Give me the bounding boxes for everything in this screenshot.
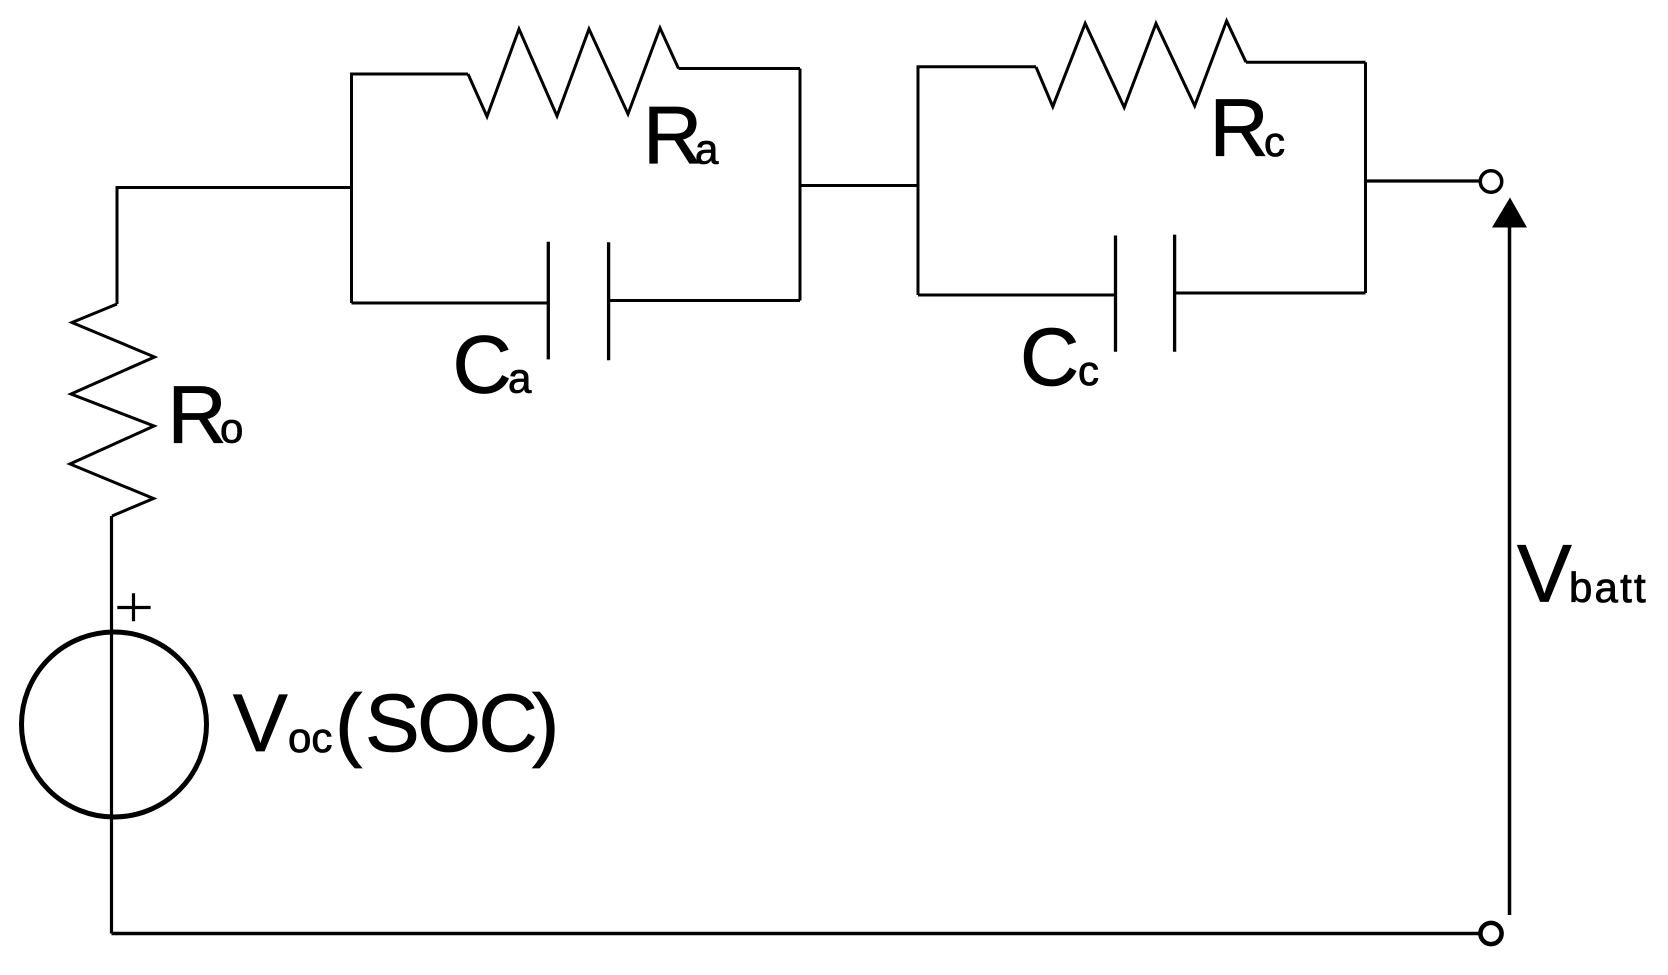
svg-text:C: C — [1020, 312, 1079, 403]
svg-text:o: o — [220, 405, 243, 452]
capacitor Cc right plate — [1173, 235, 1176, 352]
wire between Ra/Ca block and Rc/Cc block — [800, 184, 918, 187]
svg-text:a: a — [508, 355, 532, 402]
box Rc/Cc: bottom-right segment — [1175, 292, 1366, 295]
box Ra/Ca: top-left segment — [350, 73, 468, 76]
voltage source Voc circle — [22, 632, 207, 817]
svg-text:V: V — [1517, 529, 1572, 620]
capacitor Ca right plate — [607, 242, 610, 360]
svg-text:R: R — [1210, 83, 1269, 174]
Vbatt arrow head — [1492, 198, 1527, 228]
capacitor Ca left plate — [547, 242, 550, 360]
box Ra/Ca: bottom-right segment — [609, 299, 800, 302]
svg-text:SOC: SOC — [365, 678, 535, 769]
svg-text:batt: batt — [1569, 564, 1648, 611]
svg-text:V: V — [233, 678, 288, 769]
svg-text:R: R — [643, 91, 702, 182]
wire from Ro top to node A (left lead into Ra/Ca block) — [117, 188, 352, 305]
svg-text:C: C — [453, 320, 512, 411]
resistor Ra (zigzag on top edge) — [468, 28, 679, 117]
box Ra/Ca: bottom-left segment — [352, 302, 549, 305]
resistor Ro (vertical zigzag) — [70, 304, 155, 516]
bottom rail wire — [112, 932, 1480, 935]
wire from Ro bottom through voltage source to bottom rail — [110, 516, 113, 934]
svg-text:a: a — [695, 126, 719, 173]
positive output terminal circle — [1480, 171, 1502, 193]
box Rc/Cc: right edge — [1364, 62, 1367, 293]
capacitor Cc left plate — [1114, 236, 1117, 352]
svg-text:c: c — [1264, 118, 1285, 165]
wire from Rc/Cc block to positive output terminal — [1366, 179, 1480, 182]
box Ra/Ca: top-right segment — [679, 67, 801, 70]
box Rc/Cc: bottom-left segment — [918, 294, 1116, 297]
svg-text:oc: oc — [288, 714, 332, 761]
box Ra/Ca: left edge — [350, 74, 353, 303]
svg-text:R: R — [168, 370, 227, 461]
svg-text:c: c — [1078, 347, 1099, 394]
plus polarity mark — [117, 593, 150, 621]
resistor Rc (zigzag on top edge) — [1036, 21, 1246, 107]
Vbatt arrow shaft — [1508, 227, 1512, 915]
svg-text:(: ( — [335, 678, 362, 769]
negative output terminal circle — [1480, 923, 1501, 944]
svg-text:): ) — [532, 678, 559, 769]
box Rc/Cc: top-left segment — [917, 65, 1037, 68]
box Ra/Ca: right edge — [799, 69, 802, 301]
box Rc/Cc: left edge — [917, 67, 920, 295]
box Rc/Cc: top-right segment — [1246, 61, 1366, 64]
